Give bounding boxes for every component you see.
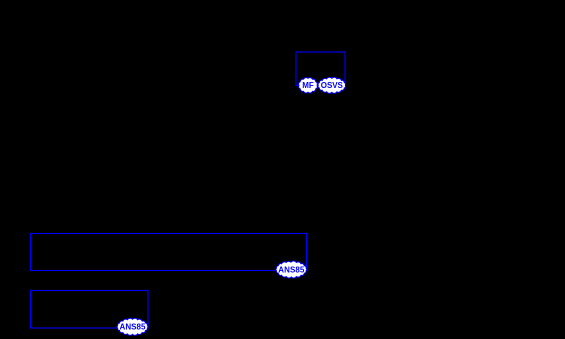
svg-text:OSVS: OSVS xyxy=(321,81,344,90)
svg-text:MF: MF xyxy=(302,81,314,90)
dialect box ANS85 (small) xyxy=(31,291,149,329)
svg-text:ANS85: ANS85 xyxy=(278,265,305,274)
flag oval MF xyxy=(299,78,318,93)
svg-text:ANS85: ANS85 xyxy=(120,323,147,332)
dialect box MF/OSVS (top) xyxy=(296,52,345,86)
dialect box ANS85 (large) xyxy=(31,234,307,271)
flag oval ANS85 (small box) xyxy=(117,318,148,335)
flag oval ANS85 (large box) xyxy=(276,261,307,278)
flag oval OSVS xyxy=(318,77,346,93)
